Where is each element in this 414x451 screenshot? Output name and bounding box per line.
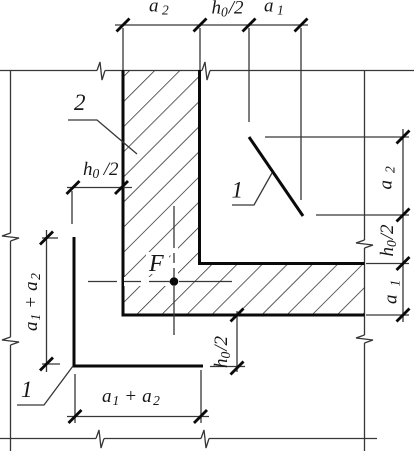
bottom h0/2 tick bottom [231, 362, 244, 375]
bottom a1+a2 extension left [74, 374, 76, 423]
centerline horizontal through F [88, 281, 232, 283]
top dim tick 3 [243, 19, 256, 32]
left h0/2 extension [71, 191, 73, 224]
design contour diagonal 1 (upper right, thick) [249, 137, 303, 216]
design contour vertical (lower left, thick) [73, 237, 76, 368]
centerline vertical through F [173, 206, 175, 335]
wall left edge (thick) [122, 70, 125, 317]
right dim extension y=263.5 [366, 263, 409, 265]
top dim tick 4 [295, 19, 308, 32]
svg-text:2: 2 [74, 90, 86, 115]
slab left edge [2, 70, 19, 451]
slab bottom edge [0, 430, 377, 448]
left h0/2 dimension line [67, 187, 132, 189]
wall bottom edge (thick) [122, 314, 365, 317]
bottom a1+a2 tick right [194, 410, 207, 423]
left a1+a2 extension stub top [42, 237, 58, 239]
svg-text:a1+a2: a1+a2 [102, 386, 160, 408]
right dim tick 1 [397, 131, 410, 144]
right dim extension y=315 [366, 314, 409, 316]
left a1+a2 tick bottom [40, 358, 53, 371]
bottom a1+a2 dimension line [67, 416, 209, 418]
left h0/2 tick 2 [115, 181, 128, 194]
white halo behind F [146, 252, 169, 274]
white halo along vertical centerline [171, 243, 179, 277]
bottom h0/2 dimension line [236, 311, 238, 372]
slab top edge [0, 62, 414, 80]
leader for label 1 upper right [232, 173, 272, 205]
top dim tick 2 [194, 19, 207, 32]
right dim extension y=215 [316, 214, 409, 216]
bottom h0/2 tick top [231, 309, 244, 322]
bottom h0/2 extension [210, 366, 245, 368]
right dim tick 3 [397, 257, 410, 270]
svg-text:1: 1 [232, 178, 244, 203]
top dim extension x=200 [199, 28, 201, 70]
wall right edge upper (thick) [198, 70, 201, 265]
top dim extension x=301 [300, 28, 302, 200]
wall inner corner top edge (thick) [198, 262, 365, 265]
left a1+a2 tick top [40, 232, 53, 245]
top dim tick 1 [117, 19, 130, 32]
bottom a1+a2 tick left [69, 410, 82, 423]
svg-text:1: 1 [21, 377, 33, 402]
design contour horizontal (lower left, thick) [73, 365, 204, 368]
top dim extension x=123 [122, 28, 124, 70]
right dim tick 4 [397, 309, 410, 322]
svg-text:a1+a2: a1+a2 [21, 273, 43, 331]
left h0/2 tick 1 [67, 181, 80, 194]
right dim tick 2 [397, 209, 410, 222]
point F dot [170, 277, 179, 286]
right dimension line [402, 129, 404, 322]
bottom a1+a2 extension right [200, 370, 202, 423]
right dim extension y=137 [265, 136, 409, 138]
leader for label 2 [68, 120, 137, 154]
top dim extension x=249 [248, 28, 250, 122]
leader for label 1 lower left [17, 366, 73, 405]
hatched wall L-shape fill [123, 70, 365, 315]
white halo along horizontal centerline [124, 277, 169, 286]
left a1+a2 extension stub bottom [42, 363, 60, 365]
left a1+a2 dimension line [46, 230, 48, 372]
slab right edge [356, 70, 373, 451]
top dimension line [115, 24, 308, 26]
svg-text:F: F [148, 251, 164, 277]
